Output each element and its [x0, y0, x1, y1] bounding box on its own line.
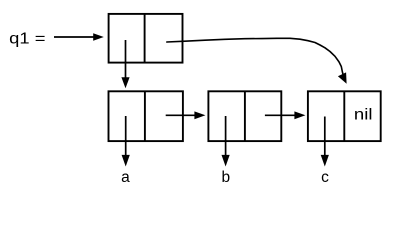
- wire arrow from N2 cdr to node N3: [265, 111, 306, 119]
- wire arrow from N0 car down to node N1: [121, 40, 129, 88]
- wire arrow from N3 car down to label c: [321, 117, 329, 167]
- label nil in N3 cdr: [354, 107, 373, 124]
- node N1 cons cell box: [109, 91, 183, 141]
- wire arrow from N1 car down to label a: [122, 116, 130, 167]
- svg-text:b: b: [221, 169, 230, 186]
- label b: [221, 169, 230, 186]
- node N0 top cons cell box: [109, 14, 183, 63]
- label c: [321, 169, 329, 186]
- label q1 =: [9, 31, 45, 48]
- wire arrow from q1 label to node N0: [54, 33, 104, 41]
- svg-text:c: c: [321, 169, 329, 186]
- svg-text:nil: nil: [354, 107, 373, 124]
- node N2 cons cell box: [208, 91, 281, 141]
- wire arrow from N2 car down to label b: [222, 116, 230, 167]
- node N3 cons cell box: [308, 91, 381, 141]
- wire arrow from N1 cdr to node N2: [166, 111, 206, 119]
- wire curved arrow from N0 cdr to node N3: [167, 38, 347, 84]
- label a: [121, 169, 130, 186]
- svg-text:q1 =: q1 =: [9, 31, 45, 48]
- svg-text:a: a: [121, 169, 130, 186]
